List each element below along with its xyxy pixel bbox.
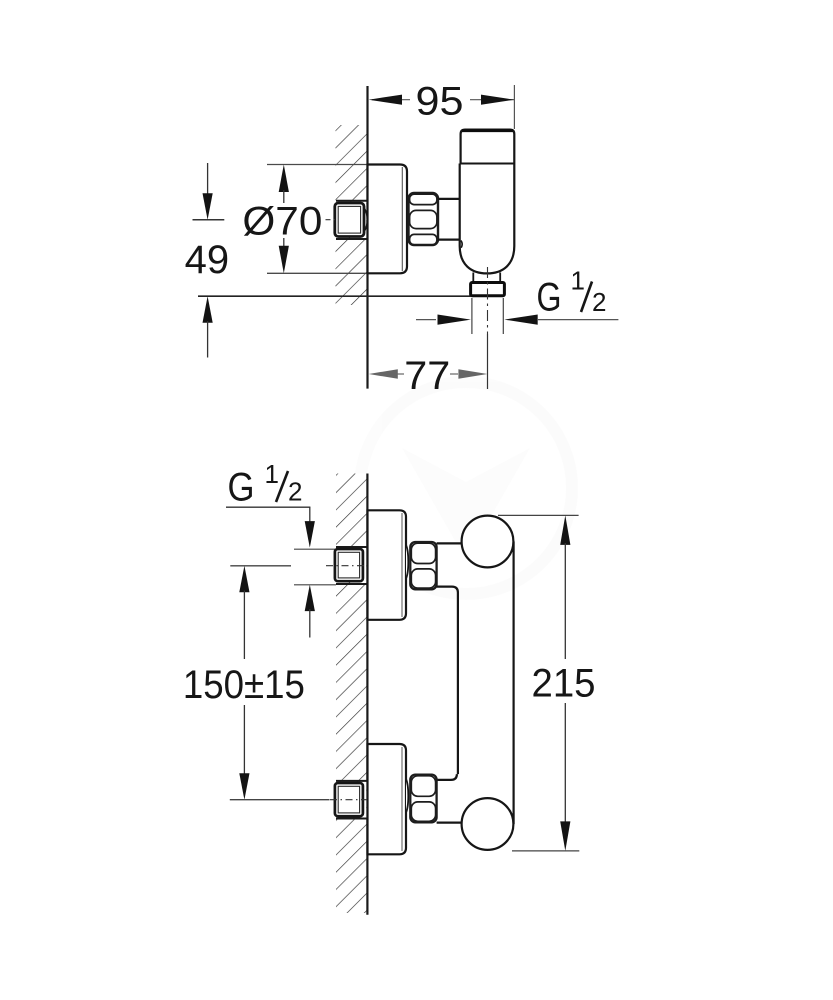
49 upper arrow — [203, 163, 213, 220]
150±15 lower arrow — [239, 705, 249, 800]
outlet centerline — [487, 267, 489, 334]
G 1/2 up arrow — [305, 585, 315, 638]
upper flange hub bump — [406, 545, 408, 579]
dimension 150±15 lower extension line — [230, 799, 330, 801]
outlet thread extension lines — [471, 298, 473, 334]
inlet pipe end arc behind square — [365, 209, 368, 232]
wall hatch (bottom view) — [336, 474, 367, 914]
body tube (bottom view) — [457, 593, 459, 775]
dimension 95 line — [369, 95, 515, 105]
lower flange hub bump — [406, 779, 408, 813]
lower connector (bottom view) — [437, 774, 457, 780]
wall hatch (top view) — [336, 125, 368, 305]
svg-text:49: 49 — [185, 238, 230, 282]
outlet neck (top view) — [472, 273, 474, 284]
inlet square union (top view) — [335, 203, 364, 237]
flange escutcheon (top view) — [368, 165, 408, 274]
inlet socket lines in wall (top view) — [336, 200, 368, 202]
bottom circle (bottom view) — [462, 798, 514, 850]
svg-text:Ø70: Ø70 — [242, 200, 322, 244]
lower inlet socket lines — [336, 780, 367, 782]
upper connector (bottom view) — [437, 542, 463, 544]
top circle (bottom view) — [462, 516, 514, 568]
upper flange face line — [401, 513, 403, 617]
body left small arc detail (top view) — [461, 241, 462, 248]
dimension 215 top extension line — [498, 514, 579, 516]
150±15 upper arrow — [239, 566, 249, 659]
watermark — [360, 382, 572, 594]
upper flange escutcheon (bottom view) — [368, 510, 407, 620]
lower inlet centerline — [330, 799, 367, 801]
G 1/2 text (top view) — [537, 266, 607, 320]
svg-text:2: 2 — [288, 477, 302, 507]
upper inlet centerline — [326, 565, 367, 567]
Ø70 dimension arrows — [279, 165, 289, 274]
inlet centerline dash (top view) — [326, 219, 337, 221]
cap top thick edge — [462, 129, 513, 132]
upper inlet square union — [335, 549, 363, 581]
G 1/2 leader line — [226, 506, 310, 508]
svg-text:77: 77 — [404, 354, 450, 398]
dimension 77 — [369, 369, 488, 379]
push button cap (top view) — [461, 130, 515, 164]
svg-text:215: 215 — [532, 661, 596, 705]
215 lower arrow — [560, 703, 570, 851]
svg-text:95: 95 — [416, 80, 464, 124]
wall line (bottom view) — [366, 474, 368, 915]
svg-text:1: 1 — [571, 266, 585, 296]
lower hex nut (bottom view) — [410, 775, 436, 823]
lower inlet square union — [335, 783, 363, 816]
upper inlet socket lines — [336, 546, 367, 548]
svg-text:2: 2 — [592, 287, 606, 317]
dimension 215 bottom extension line — [512, 850, 579, 852]
valve body (top view) — [460, 164, 515, 274]
cap/body separation line — [460, 163, 515, 165]
outlet collar (top view) — [471, 283, 505, 296]
svg-text:G: G — [537, 276, 562, 320]
svg-text:G: G — [228, 466, 255, 510]
flange face line — [401, 167, 403, 271]
connector tube (top view) — [438, 198, 461, 200]
wall line (top view) — [366, 86, 368, 389]
G 1/2 down arrow — [305, 521, 315, 548]
upper hex nut (bottom view) — [410, 542, 436, 589]
lower flange escutcheon (bottom view) — [368, 744, 407, 854]
215 upper arrow — [560, 515, 570, 659]
bottom reference line (outlet plane) — [198, 295, 471, 297]
inlet bore white-out (top view) — [362, 202, 366, 239]
lower inlet bore white-out — [361, 782, 366, 818]
Ø70 extension line top — [267, 164, 367, 166]
hex nut (top view) — [409, 193, 439, 245]
Ø70 extension line bottom — [267, 272, 367, 274]
upper inlet bore white-out — [361, 548, 366, 583]
G 1/2 text (bottom view) — [228, 459, 303, 510]
svg-text:150±15: 150±15 — [183, 663, 305, 707]
dimension 49 tick (inlet centerline) — [193, 219, 225, 221]
extension line right of 95 — [513, 85, 515, 129]
49 lower arrow — [203, 296, 213, 357]
inlet top extension line — [294, 548, 336, 550]
lower flange face line — [401, 747, 403, 851]
G 1/2 arrows (top view) — [416, 315, 618, 325]
dimension 150±15 upper extension line — [230, 565, 291, 567]
svg-text:1: 1 — [265, 459, 279, 489]
inlet bottom extension line — [294, 584, 336, 586]
